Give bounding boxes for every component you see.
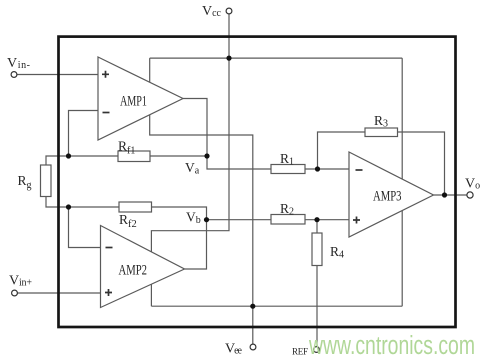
svg-text:Va: Va bbox=[185, 160, 200, 177]
node Va junction bbox=[204, 153, 209, 158]
wire: AMP1 output down to node Va bbox=[183, 99, 207, 157]
wire: Rg bottom to node B bbox=[46, 197, 69, 208]
svg-text:Vb: Vb bbox=[186, 210, 201, 227]
node A junction bbox=[66, 153, 71, 158]
wire: node A to Rg top bbox=[46, 156, 69, 165]
wire: AMP3 V+ and V- pins column bbox=[401, 58, 403, 306]
wire: R2 right to AMP3 non-inverting input bbox=[305, 219, 349, 221]
svg-text:R2: R2 bbox=[280, 201, 294, 218]
svg-text:AMP3: AMP3 bbox=[373, 189, 402, 205]
terminal Vo bbox=[465, 177, 480, 199]
terminal Vee bbox=[225, 342, 256, 357]
node Vb junction bbox=[204, 217, 209, 222]
node: Vcc rail junction bbox=[226, 56, 231, 61]
terminal Vin- bbox=[7, 56, 30, 77]
node: R1/R3 feedback junction bbox=[315, 166, 320, 171]
wire: feedback branch node to R3 left bbox=[318, 132, 366, 169]
svg-text:REF: REF bbox=[292, 347, 308, 357]
resistor R1 bbox=[271, 151, 305, 174]
svg-text:Vcc: Vcc bbox=[202, 4, 222, 19]
wire: Vin+ lead to AMP2 non-inverting input bbox=[17, 292, 100, 294]
svg-text:R1: R1 bbox=[280, 151, 294, 168]
terminal Vcc bbox=[202, 4, 232, 19]
wire: Vin- lead to AMP1 non-inverting input bbox=[17, 74, 98, 76]
svg-text:Vo: Vo bbox=[465, 177, 480, 192]
svg-text:AMP1: AMP1 bbox=[120, 93, 147, 109]
resistor R2 bbox=[271, 201, 305, 224]
svg-text:Vin+: Vin+ bbox=[9, 274, 32, 289]
svg-text:www.cntronics.com: www.cntronics.com bbox=[308, 332, 475, 360]
wire: AMP1 V+ pin, V- pin over and down to Vee bbox=[150, 58, 253, 344]
wire: node B to AMP2 inverting input bbox=[69, 207, 101, 248]
wire: R3 right down to output node bbox=[398, 132, 445, 195]
svg-text:AMP2: AMP2 bbox=[119, 263, 148, 279]
wire: node B through Rf2 to node Vb bbox=[69, 207, 207, 220]
wire: Vcc column down and over to AMP2 V+ pin bbox=[151, 14, 229, 306]
wire: node A through Rf1 to node Va bbox=[69, 155, 208, 157]
svg-text:R3: R3 bbox=[374, 113, 388, 130]
wire: node Va to R1 left bbox=[207, 156, 271, 169]
terminal Vin+ bbox=[9, 274, 32, 296]
wire: Vcc rail bbox=[150, 57, 403, 59]
svg-text:R4: R4 bbox=[330, 244, 344, 261]
wire: AMP1 inverting input to node A bbox=[69, 111, 99, 157]
svg-text:Vee: Vee bbox=[225, 342, 243, 357]
IC package outline bbox=[59, 37, 456, 327]
terminal REF bbox=[292, 347, 319, 357]
wire: R1 right to AMP3 inverting input bbox=[305, 168, 349, 170]
resistor Rf2 bbox=[119, 202, 152, 230]
op-amp AMP1 bbox=[98, 57, 183, 140]
node B junction bbox=[66, 204, 71, 209]
svg-text:Rg: Rg bbox=[18, 173, 32, 191]
node: Vee rail junction bbox=[250, 304, 255, 309]
resistor R3 bbox=[365, 113, 398, 137]
node: R2/R4 junction bbox=[314, 217, 319, 222]
wire: AMP3 output to Vo terminal bbox=[434, 194, 468, 196]
resistor Rg bbox=[18, 165, 52, 197]
wire: AMP2 output up to node Vb bbox=[185, 220, 207, 269]
wire: node Vb to R2 left bbox=[207, 219, 272, 221]
svg-text:Vin-: Vin- bbox=[7, 56, 30, 71]
node: output junction bbox=[442, 192, 447, 197]
op-amp AMP3 bbox=[349, 152, 434, 237]
wire: Vee rail bbox=[151, 305, 402, 307]
op-amp AMP2 bbox=[101, 226, 185, 308]
resistor R4 bbox=[312, 233, 344, 266]
resistor Rf1 bbox=[118, 139, 150, 162]
svg-text:Rf2: Rf2 bbox=[119, 212, 137, 230]
wire: R4 column down to REF terminal bbox=[316, 220, 318, 347]
